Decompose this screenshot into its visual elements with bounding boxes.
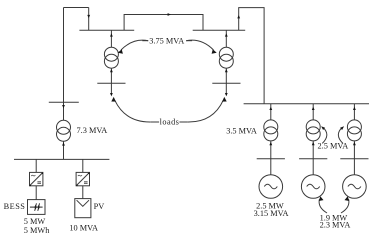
PV chevron (77, 200, 89, 206)
generator G2 sine (307, 184, 320, 189)
bus LV bottom-left (14, 158, 109, 160)
arrow flow on drop to bus1 (87, 15, 90, 18)
wire load stub right (225, 83, 227, 93)
bus 1 (top left MV bus) (79, 29, 134, 31)
arrow flow up below long bus c3 (353, 107, 356, 110)
wire bus1 down to transformer T1 (110, 30, 112, 47)
arrow flow up below T1 (110, 69, 113, 72)
wire tick1 to gen G1 (270, 159, 272, 175)
transformer T5 2.5 MVA circles (306, 120, 320, 134)
node MV tick right (212, 82, 240, 84)
converter 2 diagonal (76, 173, 89, 186)
annotation 1.9 MW left curve (319, 199, 327, 213)
wire T1 to MV tick left (110, 68, 112, 83)
arrow load stub right down (225, 93, 228, 96)
converter 2 dc bars (84, 182, 88, 184)
converter 1 dc bars (37, 182, 41, 184)
converter 1 diagonal (30, 173, 43, 186)
wire LV bus to converter 1 (35, 159, 37, 172)
converter 2 box (76, 172, 89, 185)
svg-text:2.5 MVA: 2.5 MVA (318, 142, 349, 151)
node gen tick 1 (257, 158, 285, 160)
node MV tick left (97, 82, 125, 84)
wire drop to bus1 (88, 8, 90, 31)
arrow flow up below T2 (225, 69, 228, 72)
wire LV bus to converter 2 (82, 159, 84, 172)
svg-text:2.3 MVA: 2.3 MVA (320, 221, 351, 230)
annotation loads left dash and curve (151, 121, 159, 123)
arrow flow up below bus2 (225, 33, 228, 36)
arrow flow up below T3 (62, 142, 65, 145)
wire T2 to MV tick right (225, 68, 227, 83)
converter 2 ac tilde (78, 175, 82, 176)
BESS symbol (30, 203, 43, 211)
annotation 3.75 MVA right dash and curve (186, 40, 192, 42)
generator G2 circle (301, 175, 325, 199)
wire T3 to LV bus (63, 141, 65, 159)
svg-text:3.5 MVA: 3.5 MVA (226, 126, 257, 135)
wire long bus to transformer T5 (312, 104, 314, 120)
wire middle bracket bus1 to bus2 (124, 15, 203, 31)
node tick above 7.3 MVA transformer (49, 101, 79, 103)
long right bus (244, 103, 369, 105)
arrow flow on right bracket (237, 15, 240, 18)
arrow flow up below long bus c1 (269, 107, 272, 110)
transformer T1 3.75 MVA circles (104, 47, 118, 61)
wire right bracket bus2 to long bus (239, 8, 264, 104)
arrow flow down below tick (62, 105, 65, 108)
wire T4 to gen tick 1 (270, 141, 272, 159)
wire tick2 to gen G2 (312, 159, 314, 175)
converter 1 ac tilde (31, 175, 35, 176)
node gen tick 2 (299, 158, 327, 160)
svg-text:BESS: BESS (4, 202, 26, 211)
svg-text:7.3 MVA: 7.3 MVA (77, 126, 108, 135)
svg-text:10 MVA: 10 MVA (69, 224, 98, 233)
svg-text:3.15 MVA: 3.15 MVA (254, 209, 289, 218)
converter 1 box (30, 172, 43, 185)
transformer T2 3.75 MVA circles (219, 47, 233, 61)
svg-text:3.75 MVA: 3.75 MVA (149, 36, 184, 45)
transformer T6 2.5 MVA circles (347, 120, 361, 134)
node gen tick 3 (340, 158, 368, 160)
generator G3 sine (348, 184, 361, 189)
arrow load stub left down (110, 93, 113, 96)
svg-text:5 MWh: 5 MWh (24, 226, 50, 235)
PV panel box (75, 199, 91, 218)
wire top-left corner horizontal (64, 7, 89, 9)
wire T5 to gen tick 2 (312, 141, 314, 159)
wire long bus to transformer T6 (353, 104, 355, 120)
generator G3 circle (343, 175, 367, 199)
annotation 2.5 MVA right curve (338, 127, 343, 143)
transformer T4 3.5 MVA circles (264, 120, 278, 134)
arrow flow up below long bus c2 (312, 107, 315, 110)
generator G1 circle (259, 175, 283, 199)
arrow flow up below T6 (353, 142, 356, 145)
generator G1 sine (264, 184, 277, 189)
wire bus2 down to transformer T2 (225, 30, 227, 47)
svg-text:PV: PV (94, 202, 105, 211)
wire converter 1 to BESS (35, 186, 37, 200)
arrow flow up below T4 (269, 142, 272, 145)
annotation 2.5 MVA left curve (322, 127, 327, 143)
svg-text:5 MW: 5 MW (24, 217, 46, 226)
wire T6 to gen tick 3 (353, 141, 355, 159)
BESS battery box (28, 200, 46, 215)
wire left feeder vertical (63, 8, 65, 121)
arrow flow up below T5 (312, 142, 315, 145)
annotation 1.9 MW right curve (341, 199, 349, 213)
wire long bus to transformer T4 (270, 104, 272, 120)
wire load stub left (110, 83, 112, 93)
svg-text:loads: loads (160, 118, 180, 127)
arrow flow on middle bracket (168, 13, 171, 16)
wire converter 2 to PV (82, 186, 84, 199)
arrow flow up below bus1 (110, 33, 113, 36)
annotation 3.75 MVA left dash and curve (142, 40, 148, 42)
wire tick3 to gen G3 (353, 159, 355, 175)
transformer T3 7.3 MVA circles (57, 120, 71, 134)
bus 2 (top right MV bus) (193, 29, 246, 31)
annotation loads right dash and curve (179, 121, 187, 123)
